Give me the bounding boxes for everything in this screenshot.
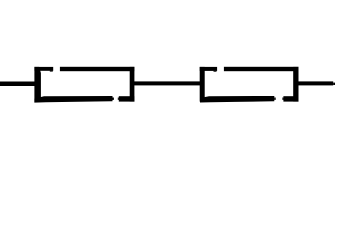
R1 bottom main stroke xyxy=(34,96,112,103)
R2 left side bar xyxy=(200,67,205,102)
R2 bottom main stroke xyxy=(200,96,274,103)
R1 left side bar xyxy=(34,67,41,103)
wire: right lead end tip xyxy=(333,83,335,85)
R2 top-left stub stroke xyxy=(200,67,217,71)
wire: right lead from R2 xyxy=(298,81,334,85)
R2 top main stroke xyxy=(224,67,299,71)
R1 bottom-right stub stroke xyxy=(119,96,135,101)
R2 bottom-right stub start nub xyxy=(282,98,283,100)
R1 top main stroke xyxy=(60,67,134,71)
R1 bottom-right stub start nub xyxy=(118,98,119,100)
R1 right side bar xyxy=(130,67,135,102)
R1 bottom main stroke end nub xyxy=(113,98,114,100)
R2 top-left stub tip droop xyxy=(214,71,217,72)
R1 top-left stub stroke xyxy=(34,67,53,71)
R2 right side bar xyxy=(293,67,298,102)
resistor R1 (IEC box symbol, sketch style) xyxy=(34,67,134,103)
resistor R2 (IEC box symbol, sketch style) xyxy=(200,67,299,103)
wire: middle link between R1 and R2 xyxy=(134,81,201,85)
R2 bottom main stroke end nub xyxy=(274,98,275,100)
R2 bottom-right stub stroke xyxy=(283,96,298,101)
R1 top-left stub tip droop xyxy=(50,71,53,72)
wire: left lead from left edge to R1 xyxy=(0,82,36,87)
